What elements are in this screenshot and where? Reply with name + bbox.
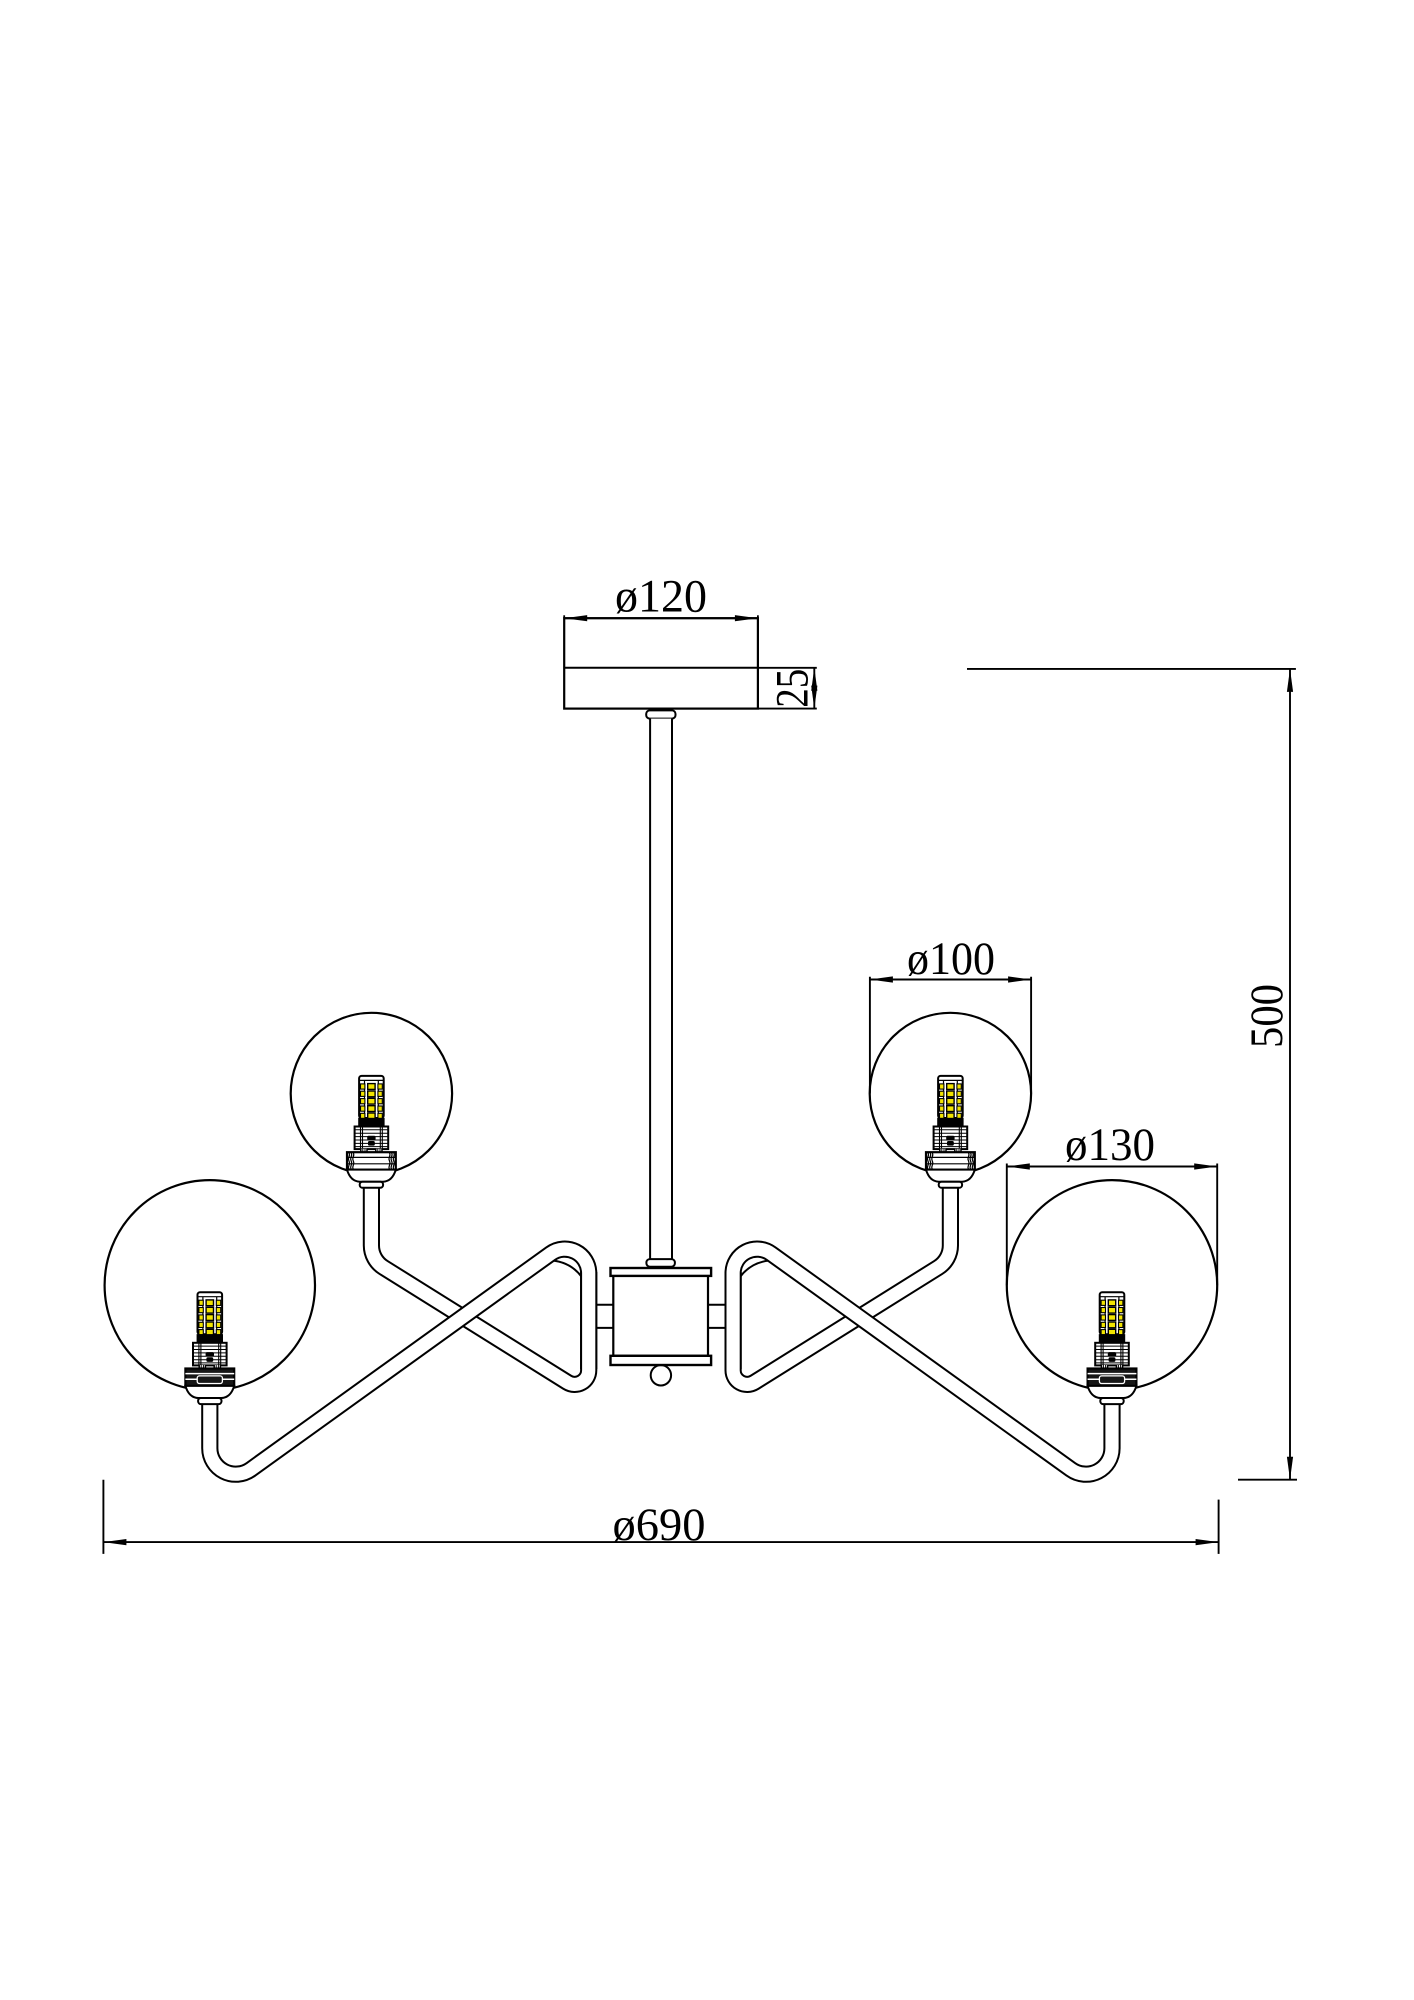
hub connector stub right — [708, 1305, 728, 1328]
hub connector stub left — [594, 1305, 614, 1328]
canopy collar — [646, 710, 675, 718]
dimension arrowheads — [103, 615, 1293, 1545]
dim 500 ext lines — [967, 668, 1296, 670]
ceiling canopy — [564, 615, 758, 708]
hub top cap — [611, 1268, 712, 1276]
svg-text:25: 25 — [767, 669, 819, 708]
dim d690 line — [103, 1541, 1218, 1543]
dimension lines group — [103, 618, 1297, 1554]
arm lower-left (front tube) — [210, 1249, 589, 1474]
svg-text:500: 500 — [1241, 984, 1293, 1048]
dim line d120 — [564, 617, 758, 619]
lamp socket+bulb lower-right — [1088, 1292, 1137, 1404]
glass globe lower-right — [1007, 1180, 1217, 1390]
stem rod — [650, 719, 672, 1260]
dim d690 ext lines — [102, 1480, 104, 1554]
dimension texts — [613, 571, 1294, 1552]
hub bottom cap — [611, 1356, 712, 1365]
svg-text:ø100: ø100 — [907, 933, 995, 985]
arm upper-right (back tube) — [733, 1181, 950, 1384]
dim d130 ext lines — [1006, 1164, 1008, 1286]
svg-text:ø130: ø130 — [1065, 1119, 1155, 1171]
svg-text:ø120: ø120 — [615, 571, 707, 623]
svg-text:ø690: ø690 — [613, 1499, 706, 1551]
central hub body — [613, 1276, 708, 1356]
glass globe lower-left — [105, 1180, 315, 1390]
glass globe upper-right — [870, 1013, 1031, 1174]
lamp socket+bulb upper-left — [347, 1076, 396, 1188]
back tube edge peek at left loop corner — [553, 1261, 582, 1278]
lamp socket+bulb lower-left — [185, 1292, 234, 1404]
lamp socket+bulb upper-right — [926, 1076, 975, 1188]
dim d130 line — [1007, 1166, 1217, 1168]
arm lower-right (front tube) — [733, 1249, 1112, 1474]
arm upper-left (back tube) — [371, 1181, 588, 1384]
hub knob — [651, 1365, 671, 1385]
dim d100 ext lines — [869, 977, 871, 1094]
dim d100 line — [870, 979, 1031, 981]
dim 500 line — [1289, 669, 1291, 1480]
rod collar above hub — [646, 1259, 675, 1267]
dim 25 line — [813, 668, 815, 709]
dim 25 ext lines — [758, 667, 817, 669]
glass globe upper-left — [291, 1013, 452, 1174]
back tube edge peek at right loop corner — [740, 1261, 769, 1278]
